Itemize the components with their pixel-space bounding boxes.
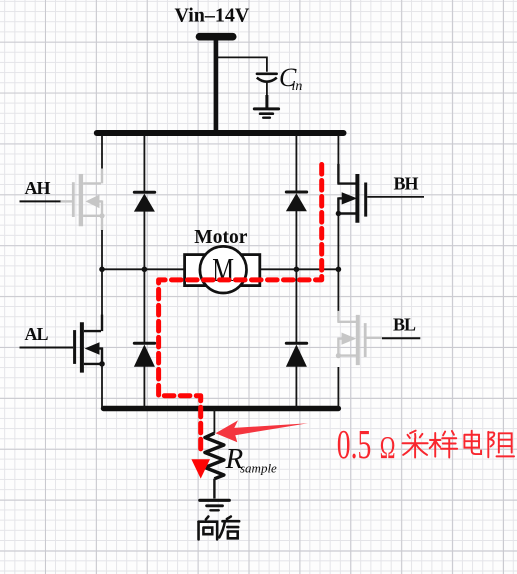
label BL with gate lead [382,315,420,339]
char 采 [403,431,428,458]
char 阻 [488,432,514,457]
node B (motor row right) [336,267,342,273]
transistor BL (grey, off) [336,311,382,365]
svg-text:M: M [212,252,234,289]
transistor BH (black, on) [336,164,366,223]
ground G2 (below Rsample) [200,500,230,510]
char 样 [430,431,457,458]
diode D1 (top left) [134,135,155,270]
node A (motor row left) [99,267,105,273]
wire: bottom bus to Rsample [213,409,215,434]
svg-text:0.5: 0.5 [337,421,372,467]
wire: AH source to motor row [101,230,103,270]
label AL with gate lead [20,324,74,348]
label 向后 (black, drawn) [199,517,240,540]
wire: AL source to bottom bus [101,364,103,409]
wire: motor row to BL drain [337,269,339,311]
top bus wire [97,130,344,136]
red current path (dashed) [159,165,322,455]
svg-text:Ω: Ω [380,430,396,465]
diode D2 (top right) [286,135,307,270]
label Cin [279,63,302,94]
transistor AH (grey, off) [60,169,105,232]
char 向 [199,517,218,540]
wire: top bus to AH drain [101,135,103,170]
wire: top bus to BH drain [337,135,339,165]
svg-text:AH: AH [25,178,51,198]
char 后 [219,517,239,539]
motor row wire [102,268,338,270]
power rail bar Vin [200,33,233,41]
label BH with gate lead [367,174,424,197]
resistor R1 Rsample [205,433,224,498]
wire: BH source to motor row [337,214,339,271]
svg-text:AL: AL [25,324,49,344]
wire: motor row to AL drain [101,269,103,315]
node (motor row, D2) [294,267,300,273]
svg-text:sample: sample [240,461,277,476]
svg-text:Motor: Motor [194,227,247,248]
label Vin-14V [175,5,250,27]
svg-text:BL: BL [393,315,416,335]
bottom bus wire [104,406,339,411]
char 电 [464,431,481,454]
label 采样电阻 (red, drawn) [403,431,514,458]
ground G1 (below Cin) [254,109,278,118]
label Rsample [225,443,278,476]
label 0.5 ohm (red) [337,421,396,467]
wire: BL source to bottom bus [337,367,339,409]
node (motor row, D1) [142,267,148,273]
label Motor [194,227,247,248]
svg-text:BH: BH [394,174,419,194]
label AH with gate lead [20,178,61,201]
svg-text:in: in [292,79,303,94]
capacitor C1 Cin [257,74,277,108]
red annotation arrow (points to Rsample) [216,420,309,442]
motor M1 [185,246,260,293]
wire branch to Cin [216,57,267,71]
red current path arrowhead (down) [191,459,210,478]
transistor AL (black, on) [75,315,105,373]
supply wire (Vin rail to top bus) [214,41,219,136]
svg-text:Vin–14V: Vin–14V [175,5,250,27]
diode D4 (bottom right) [286,269,307,408]
diode D3 (bottom left) [134,269,155,408]
